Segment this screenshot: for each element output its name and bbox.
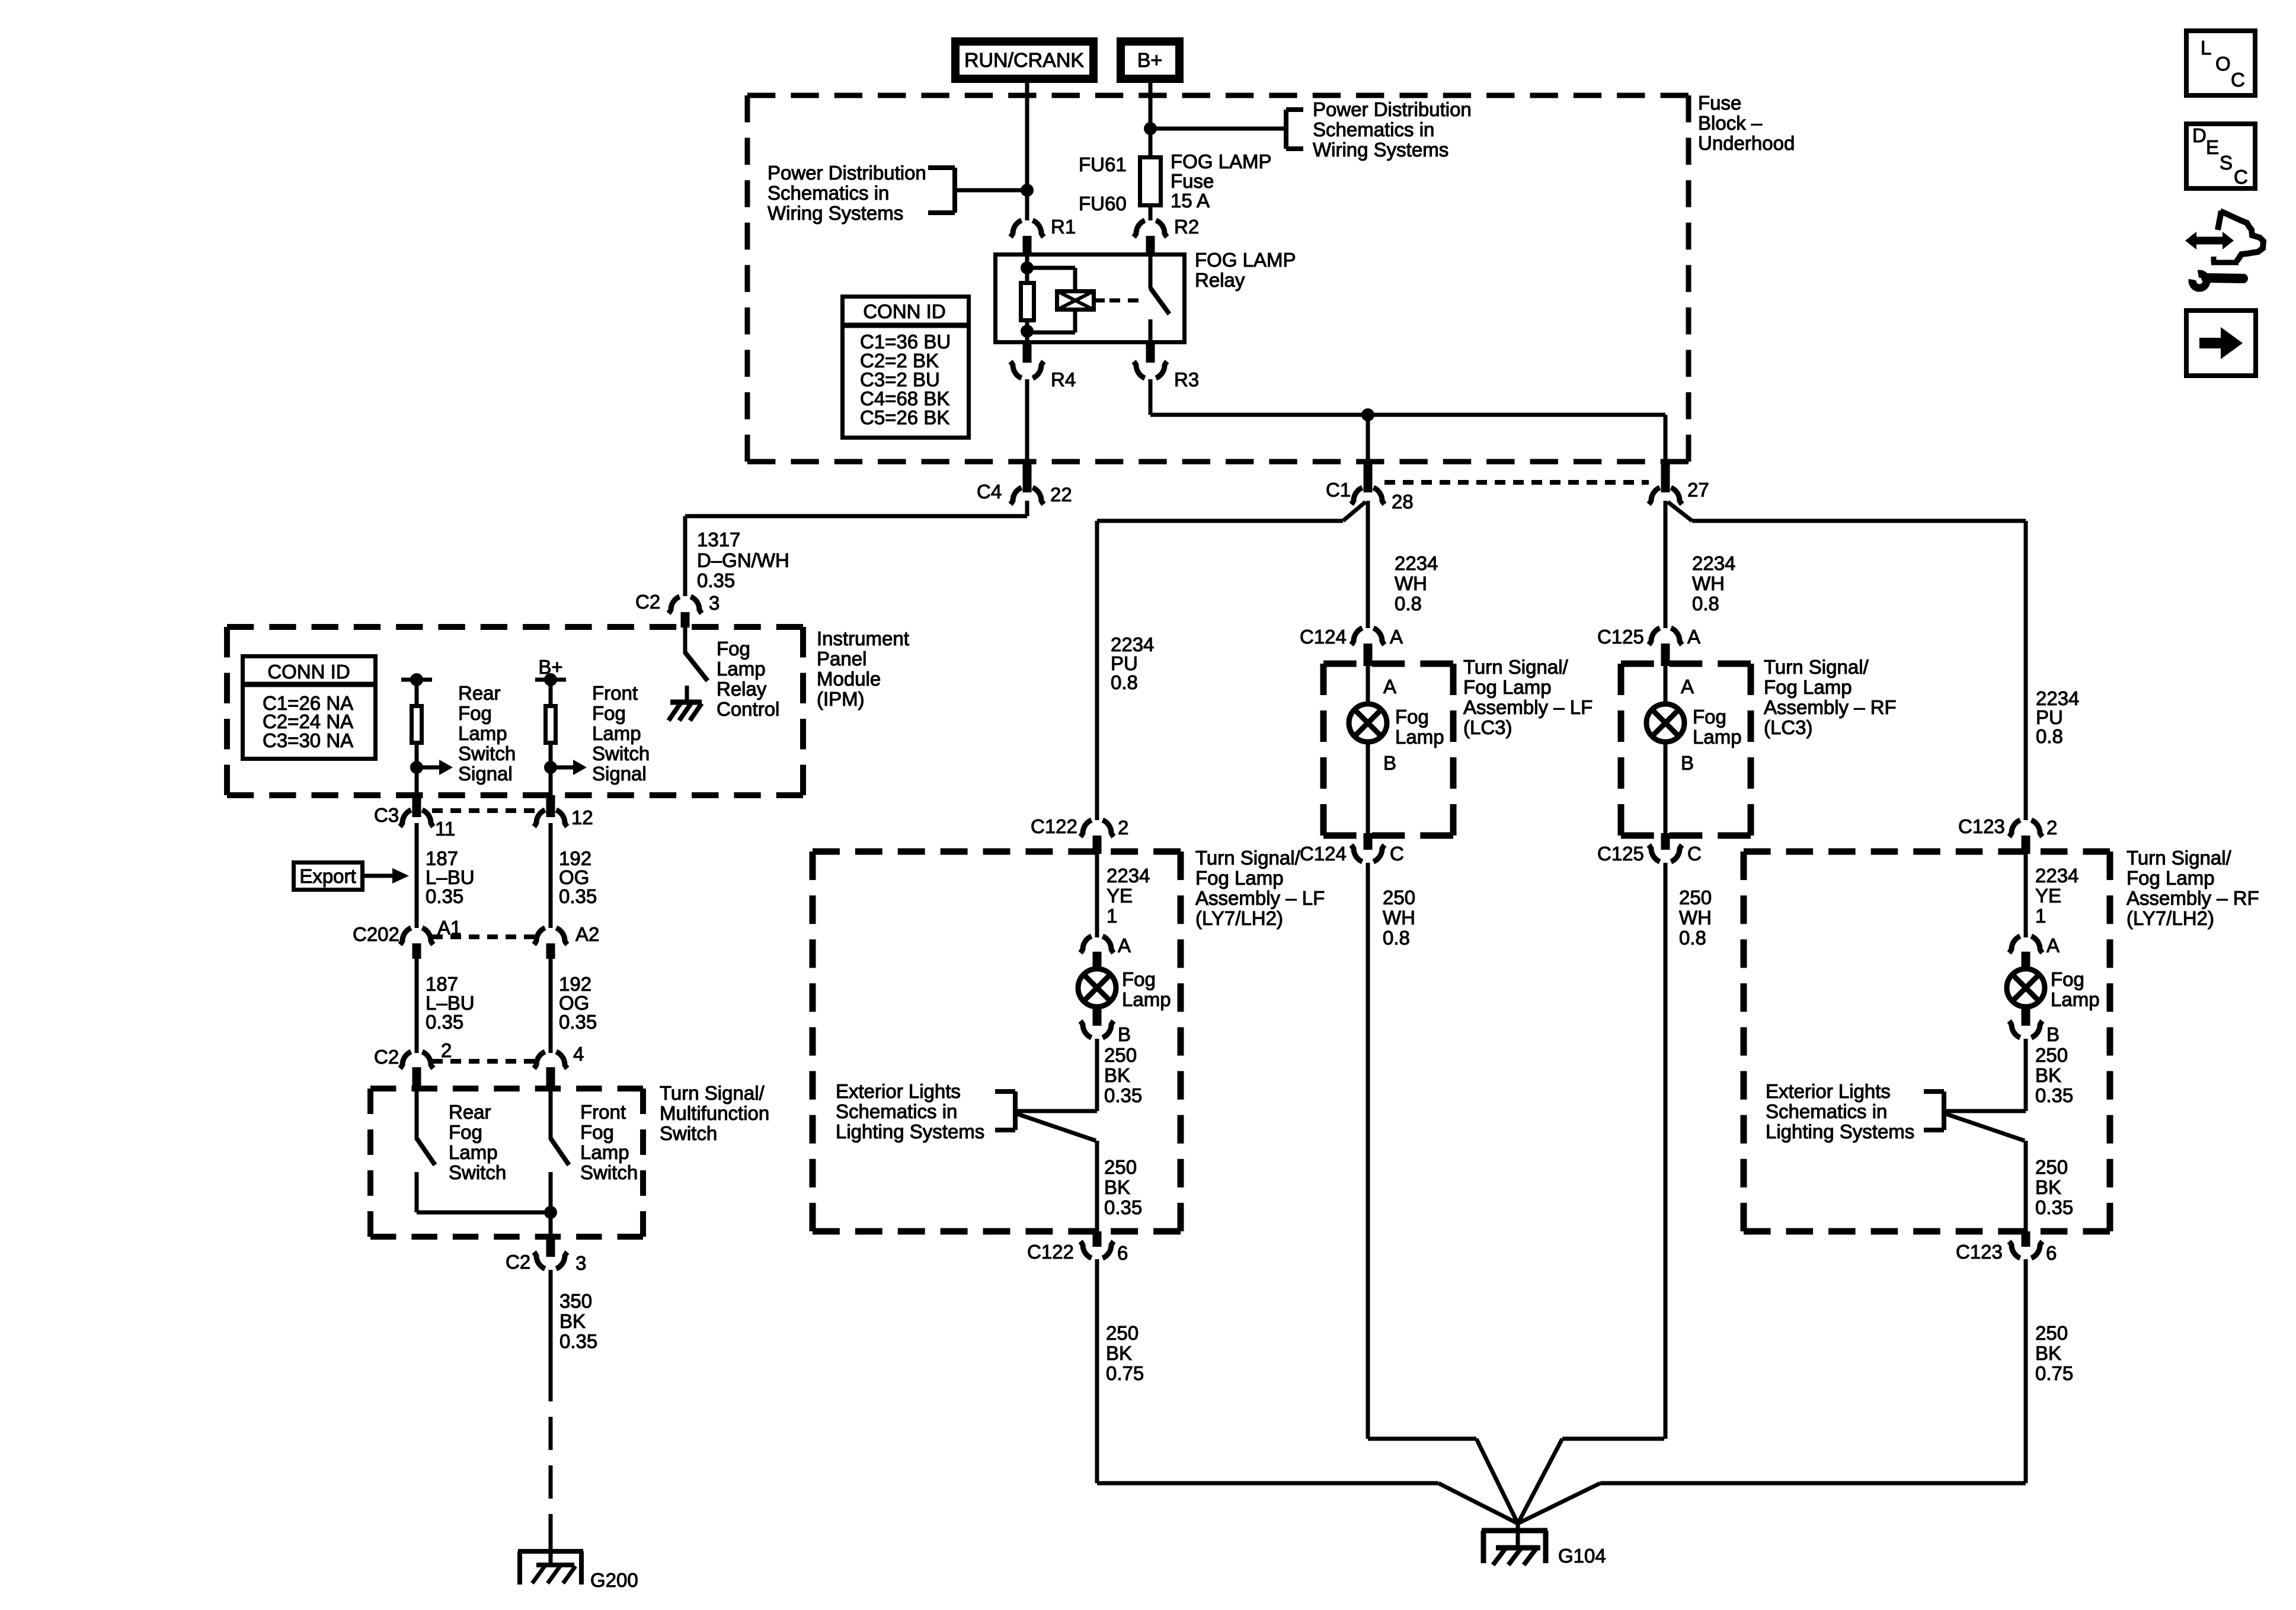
svg-text:FOG LAMP: FOG LAMP <box>1171 151 1272 172</box>
svg-text:CONN ID: CONN ID <box>267 661 350 683</box>
svg-text:C122: C122 <box>1027 1241 1074 1263</box>
label Power Distribution Schematics in Wiring Systems (left) <box>768 162 926 224</box>
connector C124 pin A <box>1351 628 1384 666</box>
svg-text:2234: 2234 <box>2035 865 2078 886</box>
svg-text:Module: Module <box>817 668 881 690</box>
wire 2234 WH from 27 to C125-A <box>1664 501 1668 628</box>
label pin 28 <box>1392 491 1414 513</box>
wire fog lamp RF to C125-C <box>1664 742 1668 834</box>
svg-text:0.35: 0.35 <box>1104 1084 1142 1106</box>
label C125 (top) <box>1597 626 1644 648</box>
label wire 250 BK 0.35 lower (LF) <box>1104 1156 1142 1218</box>
wire to right power-distribution reference <box>1150 127 1286 131</box>
svg-text:Fog Lamp: Fog Lamp <box>2126 867 2215 889</box>
svg-text:Export: Export <box>299 865 356 887</box>
label C122 (top) <box>1031 815 1077 837</box>
node junction dot to C1-28 <box>1361 408 1374 421</box>
label wire 250 BK 0.35 upper (LF) <box>1104 1044 1142 1106</box>
svg-text:Control: Control <box>717 698 779 720</box>
node rear signal junction <box>410 761 423 774</box>
label wire 2234 YE 1 (LF) <box>1107 865 1150 927</box>
svg-text:Signal: Signal <box>592 763 647 785</box>
svg-text:22: 22 <box>1050 484 1072 505</box>
svg-text:Lamp: Lamp <box>592 722 641 744</box>
label pin 2 (switch) <box>441 1039 452 1061</box>
rear fog lamp switch signal resistor <box>412 680 422 796</box>
svg-text:A: A <box>1118 934 1131 956</box>
label Power Distribution Schematics in Wiring Systems (right) <box>1313 98 1472 161</box>
wire diagonal from reference to lower 250 BK (LF) <box>1016 1113 1096 1141</box>
svg-text:FU60: FU60 <box>1079 193 1127 215</box>
wire 2234 PU from 27 to C123-2 <box>1668 502 2026 820</box>
svg-text:0.35: 0.35 <box>2035 1196 2073 1218</box>
svg-text:R1: R1 <box>1051 216 1076 238</box>
label pin A (LY7 LF) <box>1118 934 1131 956</box>
label C125 (bottom) <box>1597 843 1644 865</box>
connector C4 pin 22 <box>1011 462 1044 504</box>
wire junction to coil branch <box>1027 268 1075 291</box>
svg-text:D–GN/WH: D–GN/WH <box>697 549 789 571</box>
svg-text:WH: WH <box>1692 572 1725 594</box>
connector C1 pin 27 <box>1649 462 1682 504</box>
svg-text:Signal: Signal <box>458 763 513 785</box>
svg-text:2: 2 <box>1118 817 1128 838</box>
svg-text:C: C <box>2231 69 2245 91</box>
wire 192 OG upper <box>549 823 553 928</box>
wire 250 WH from C125-C to G104 <box>1664 863 1668 1439</box>
wire RUN/CRANK down to R1 <box>1025 83 1029 220</box>
svg-text:C123: C123 <box>1956 1241 2003 1263</box>
svg-text:0.8: 0.8 <box>1111 671 1138 693</box>
fog lamp bulb LF (LC3) <box>1349 704 1387 742</box>
wire 2234 YE C123-2 to lamp A (RF) <box>2024 854 2028 937</box>
svg-text:Switch: Switch <box>449 1161 506 1183</box>
svg-text:2234: 2234 <box>1395 552 1438 574</box>
svg-text:YE: YE <box>2035 885 2061 907</box>
svg-text:BK: BK <box>1104 1176 1130 1198</box>
svg-text:2: 2 <box>441 1039 452 1061</box>
connector C2 pin 3 (switch bottom) <box>534 1237 567 1269</box>
label C2 (switch bottom) <box>506 1251 530 1273</box>
label wire 250 BK 0.35 lower (RF) <box>2035 1156 2073 1218</box>
label wire 2234 PU 0.8 (left) <box>1111 633 1154 693</box>
svg-text:C124: C124 <box>1300 626 1347 648</box>
svg-text:0.35: 0.35 <box>559 885 597 907</box>
svg-text:A2: A2 <box>575 923 599 945</box>
svg-text:Fog: Fog <box>2051 968 2084 990</box>
svg-text:Fog: Fog <box>458 702 492 724</box>
label wire 250 WH 0.8 (left) <box>1383 886 1415 949</box>
connector R3 <box>1134 344 1167 378</box>
svg-text:(IPM): (IPM) <box>817 688 865 710</box>
svg-text:2234: 2234 <box>1692 552 1735 574</box>
svg-text:0.8: 0.8 <box>1383 927 1410 949</box>
svg-text:Assembly – RF: Assembly – RF <box>2126 887 2259 909</box>
svg-text:Exterior Lights: Exterior Lights <box>836 1080 961 1102</box>
front fog lamp switch contact <box>549 1172 553 1212</box>
wire to left power-distribution reference <box>955 188 1027 193</box>
connector tie line C202 row <box>432 934 535 939</box>
svg-text:C124: C124 <box>1300 843 1347 865</box>
wire R2 into relay switch <box>1149 254 1153 289</box>
svg-text:Schematics in: Schematics in <box>1766 1100 1887 1122</box>
svg-text:250: 250 <box>1679 886 1712 908</box>
svg-text:0.8: 0.8 <box>2036 725 2063 747</box>
lamp socket connector pin A (RF) <box>2009 936 2042 968</box>
svg-text:Fog: Fog <box>580 1121 614 1143</box>
svg-text:2: 2 <box>2046 817 2057 838</box>
svg-text:0.8: 0.8 <box>1395 593 1422 614</box>
svg-text:FOG LAMP: FOG LAMP <box>1195 249 1296 271</box>
svg-text:Fog Lamp: Fog Lamp <box>1463 676 1552 698</box>
wire 250 BK 0.75 from C123-6 to G104 <box>1600 1259 2026 1483</box>
relay coil (solenoid box with X) <box>1057 291 1094 310</box>
svg-text:Relay: Relay <box>717 678 767 700</box>
wire 250 BK lower (LF) <box>1095 1141 1099 1233</box>
svg-text:Fog: Fog <box>1395 706 1429 728</box>
label G200 <box>590 1569 638 1591</box>
wire 250 BK 0.75 from C122-6 to G104 <box>1097 1259 1438 1483</box>
IPM internal ground symbol <box>669 702 702 721</box>
node front signal junction <box>544 761 557 774</box>
instrument panel module dashed box <box>227 627 803 795</box>
svg-text:WH: WH <box>1383 907 1415 929</box>
lamp socket connector pin B (RF) <box>2009 1007 2042 1038</box>
front signal arrow <box>551 760 587 775</box>
wire into rear fog lamp switch <box>415 1089 419 1140</box>
label pin A (C125) <box>1687 626 1700 648</box>
svg-text:1: 1 <box>2035 905 2046 927</box>
svg-text:0.35: 0.35 <box>426 885 463 907</box>
label R3 <box>1174 369 1199 391</box>
rear fog lamp switch signal rail <box>401 673 432 686</box>
relay switch blade <box>1150 288 1169 314</box>
svg-text:350: 350 <box>559 1290 592 1312</box>
svg-text:Exterior Lights: Exterior Lights <box>1766 1080 1891 1102</box>
connector C125 pin A <box>1649 628 1682 666</box>
label C1 <box>1326 479 1351 501</box>
wire 250 WH from C124-C to G104 <box>1366 863 1370 1439</box>
wire junction down to C1 stub <box>1366 415 1370 462</box>
svg-text:0.75: 0.75 <box>1106 1362 1144 1384</box>
svg-text:0.35: 0.35 <box>1104 1196 1142 1218</box>
svg-text:A: A <box>1681 676 1694 697</box>
svg-text:Schematics in: Schematics in <box>1313 119 1434 140</box>
label pin B (LY7 LF) <box>1118 1023 1131 1045</box>
svg-text:6: 6 <box>1117 1242 1128 1264</box>
svg-text:3: 3 <box>709 592 720 614</box>
label Turn Signal/Fog Lamp Assembly - RF (LC3) <box>1764 656 1897 738</box>
connector C2 pin 2 <box>400 1052 433 1086</box>
svg-text:C125: C125 <box>1597 843 1644 865</box>
svg-text:0.8: 0.8 <box>1692 593 1719 614</box>
label C124 (top) <box>1300 626 1347 648</box>
connector C1 pin 28 <box>1351 462 1384 504</box>
rear fog lamp switch blade <box>417 1138 435 1165</box>
svg-text:Fuse: Fuse <box>1698 92 1741 114</box>
label Fog Lamp (LC3 LF) <box>1395 706 1444 748</box>
label wire 250 BK 0.75 (left) <box>1106 1322 1144 1384</box>
svg-text:0.35: 0.35 <box>559 1011 597 1033</box>
svg-text:Rear: Rear <box>449 1101 491 1123</box>
svg-text:Turn Signal/: Turn Signal/ <box>660 1082 765 1104</box>
svg-text:BK: BK <box>1106 1342 1132 1364</box>
label Instrument Panel Module (IPM) <box>817 628 909 710</box>
label pin A (LY7 RF) <box>2046 934 2060 956</box>
svg-text:(LY7/LH2): (LY7/LH2) <box>1195 907 1283 929</box>
label Turn Signal/Fog Lamp Assembly - RF (LY7/LH2) <box>2126 847 2259 929</box>
svg-text:2234: 2234 <box>1107 865 1150 886</box>
svg-text:BK: BK <box>2035 1064 2061 1086</box>
label pin 2 (C122) <box>1118 817 1128 838</box>
label wire 187 L-BU 0.35 lower <box>426 973 475 1033</box>
wire 2234 PU from C1-28 to C122-2 <box>1097 502 1366 820</box>
svg-text:Fog: Fog <box>717 638 750 660</box>
svg-text:Schematics in: Schematics in <box>768 182 889 204</box>
svg-text:1317: 1317 <box>697 529 740 550</box>
ground G200 <box>518 1551 583 1585</box>
svg-text:12: 12 <box>571 806 593 828</box>
svg-text:G104: G104 <box>1558 1545 1606 1567</box>
label wire 250 BK 0.35 upper (RF) <box>2035 1044 2073 1106</box>
connector C122 pin 6 <box>1080 1231 1114 1258</box>
right power distribution reference bracket <box>1286 110 1303 149</box>
wire 2234 WH from C1-28 to C124-A <box>1366 501 1370 628</box>
svg-text:B: B <box>1383 752 1396 774</box>
label pin 22 <box>1050 484 1072 505</box>
label wire 250 BK 0.75 (right) <box>2035 1322 2073 1384</box>
relay switch fixed contact <box>1149 319 1153 343</box>
wire 192 OG lower <box>549 959 553 1053</box>
wire 250 BK LF diagonal to G104 <box>1438 1483 1518 1523</box>
svg-text:C123: C123 <box>1958 815 2005 837</box>
label wire 2234 WH 0.8 (right) <box>1692 552 1735 614</box>
connector C202 pin A2 <box>534 928 567 959</box>
svg-text:C125: C125 <box>1597 626 1644 648</box>
svg-text:Lamp: Lamp <box>717 658 766 680</box>
label pin 27 <box>1687 479 1709 501</box>
label C2 (IPM top) <box>635 591 660 613</box>
label G104 <box>1558 1545 1606 1567</box>
svg-text:Front: Front <box>580 1101 626 1123</box>
svg-text:B: B <box>2046 1023 2060 1045</box>
wire 350 BK <box>549 1270 553 1368</box>
label C122 (bottom) <box>1027 1241 1074 1263</box>
label wire 192 OG 0.35 lower <box>559 973 597 1033</box>
svg-text:Relay: Relay <box>1195 269 1245 291</box>
label pin 11 <box>435 818 455 840</box>
svg-text:6: 6 <box>2046 1242 2057 1264</box>
label wire 192 OG 0.35 upper <box>559 847 597 907</box>
svg-text:250: 250 <box>1383 886 1415 908</box>
svg-text:C122: C122 <box>1031 815 1077 837</box>
svg-text:Instrument: Instrument <box>817 628 909 649</box>
label FOG LAMP Relay <box>1195 249 1296 291</box>
icon next-page arrow box <box>2186 311 2256 376</box>
svg-text:R2: R2 <box>1174 216 1199 238</box>
label Front Fog Lamp Switch <box>580 1101 638 1183</box>
label C2 (switch) <box>374 1046 399 1068</box>
label pin B (LY7 RF) <box>2046 1023 2060 1045</box>
svg-text:0.35: 0.35 <box>426 1011 463 1033</box>
label pin A inside LC3 LF <box>1383 676 1396 697</box>
svg-text:0.35: 0.35 <box>697 569 735 591</box>
svg-text:C202: C202 <box>353 923 399 945</box>
label Fuse Block - Underhood <box>1698 92 1795 154</box>
power feed box RUN/CRANK <box>955 41 1093 79</box>
label wire 2234 WH 0.8 (left) <box>1395 552 1438 614</box>
svg-text:(LC3): (LC3) <box>1463 716 1512 738</box>
label pin A2 <box>575 923 599 945</box>
wire to exterior lights reference (RF) <box>1944 1109 2026 1113</box>
label pin B inside LC3 RF <box>1681 752 1694 774</box>
relay resistor <box>1021 283 1034 321</box>
wire resistor to relay bottom <box>1025 320 1029 343</box>
label Fog Lamp Relay Control <box>717 638 779 720</box>
label R2 <box>1174 216 1199 238</box>
svg-text:28: 28 <box>1392 491 1414 513</box>
svg-text:Assembly – LF: Assembly – LF <box>1195 887 1325 909</box>
svg-text:1: 1 <box>1107 905 1117 927</box>
svg-text:Turn Signal/: Turn Signal/ <box>1195 847 1301 869</box>
label pin A1 <box>437 917 461 939</box>
svg-text:250: 250 <box>2035 1322 2068 1344</box>
label wire 2234 PU 0.8 (right) <box>2036 687 2079 747</box>
connector C2 pin 3 (IPM) <box>669 597 702 628</box>
fog lamp bulb LF (LY7) <box>1078 969 1116 1007</box>
svg-text:CONN ID: CONN ID <box>863 300 945 322</box>
svg-text:Wiring Systems: Wiring Systems <box>1313 139 1448 161</box>
svg-text:Fog: Fog <box>1122 968 1156 990</box>
label wire 187 L-BU 0.35 upper <box>426 847 475 907</box>
connector C123 pin 2 <box>2009 820 2042 854</box>
exterior lights reference bracket (LF) <box>995 1092 1015 1130</box>
label wire 350 BK 0.35 <box>559 1290 597 1352</box>
svg-text:B: B <box>1118 1023 1131 1045</box>
svg-text:Front: Front <box>592 682 638 704</box>
svg-text:Fog Lamp: Fog Lamp <box>1195 867 1284 889</box>
svg-text:FU61: FU61 <box>1079 153 1127 175</box>
svg-text:C2: C2 <box>635 591 660 613</box>
svg-text:Power Distribution: Power Distribution <box>1313 98 1472 120</box>
connector R1 <box>1011 220 1044 254</box>
wire switch common <box>417 1211 551 1215</box>
svg-text:(LY7/LH2): (LY7/LH2) <box>2126 907 2214 929</box>
svg-text:G200: G200 <box>590 1569 638 1591</box>
connector R4 <box>1011 344 1044 378</box>
wire 250 WH RF to G104 corner <box>1518 1439 1664 1523</box>
fuse FU61 FOG LAMP 15A <box>1140 158 1161 206</box>
svg-text:S: S <box>2220 152 2233 174</box>
svg-text:Multifunction: Multifunction <box>660 1102 769 1124</box>
label Fog Lamp (LY7 LF) <box>1122 968 1171 1010</box>
label wire 2234 YE 1 (RF) <box>2035 865 2078 927</box>
label Front Fog Lamp Switch Signal <box>592 682 650 785</box>
LC3 RF assembly dashed box <box>1621 664 1751 836</box>
wire 187 L-BU lower <box>415 959 419 1053</box>
label Rear Fog Lamp Switch Signal <box>458 682 516 785</box>
relay actuator dashed link <box>1094 299 1144 303</box>
node switch common junction <box>544 1206 557 1219</box>
connector C125 pin C <box>1649 833 1682 862</box>
connector tie line C2 row <box>432 1059 535 1064</box>
svg-text:3: 3 <box>575 1252 586 1274</box>
LY7 LF assembly dashed box <box>813 852 1181 1231</box>
wire common down <box>549 1212 553 1238</box>
svg-text:C5=26 BK: C5=26 BK <box>860 406 949 428</box>
svg-text:Fog: Fog <box>592 702 626 724</box>
svg-text:BK: BK <box>559 1310 586 1332</box>
label Rear Fog Lamp Switch <box>449 1101 506 1183</box>
svg-text:Power Distribution: Power Distribution <box>768 162 926 184</box>
label pin 3 (IPM top) <box>709 592 720 614</box>
svg-text:Lamp: Lamp <box>1122 988 1171 1010</box>
label pin B inside LC3 LF <box>1383 752 1396 774</box>
wire 187 L-BU upper <box>415 823 419 928</box>
svg-text:B+: B+ <box>1137 49 1163 72</box>
rear signal arrow <box>417 760 453 775</box>
svg-text:Block –: Block – <box>1698 112 1763 134</box>
label wire 1317 D-GN/WH 0.35 <box>697 529 789 591</box>
connector C202 pin A1 <box>400 928 433 959</box>
relay CONN ID table <box>840 297 969 438</box>
turn signal multifunction switch dashed box <box>370 1089 643 1237</box>
connector C2 pin 4 <box>534 1052 567 1086</box>
fuse block underhood dashed boundary <box>747 95 1689 462</box>
wire 250 BK RF diagonal to G104 <box>1518 1483 1600 1523</box>
svg-text:Lamp: Lamp <box>1693 726 1742 748</box>
svg-text:Lamp: Lamp <box>1395 726 1444 748</box>
label R1 <box>1051 216 1076 238</box>
wire 350 BK dashed run to G200 <box>549 1368 553 1565</box>
label pin 3 (switch bottom) <box>575 1252 586 1274</box>
wire 250 BK upper (RF) <box>2024 1039 2028 1111</box>
node relay coil bottom junction <box>1021 325 1034 338</box>
svg-text:C: C <box>1687 843 1702 865</box>
wire R3 down and right to 27 <box>1150 379 1665 462</box>
svg-text:250: 250 <box>2035 1156 2068 1178</box>
svg-text:Switch: Switch <box>660 1122 717 1144</box>
relay box FOG LAMP Relay <box>996 255 1185 343</box>
wire fuse to R2 <box>1149 206 1153 220</box>
svg-text:A: A <box>1390 626 1403 648</box>
svg-text:11: 11 <box>435 818 455 840</box>
Export arrow <box>364 868 409 884</box>
label R4 <box>1051 369 1076 391</box>
connector C123 pin 6 <box>2009 1231 2042 1258</box>
label Fog Lamp (LC3 RF) <box>1693 706 1742 748</box>
label Turn Signal/Multifunction Switch <box>660 1082 769 1144</box>
svg-text:250: 250 <box>1104 1156 1137 1178</box>
rear fog lamp switch contact <box>415 1172 419 1212</box>
label pin 6 (C122) <box>1117 1242 1128 1264</box>
front fog lamp switch signal rail <box>535 673 566 686</box>
wire R4 down to C4 <box>1025 379 1029 462</box>
fog lamp bulb RF (LC3) <box>1646 704 1684 742</box>
exterior lights reference bracket (RF) <box>1924 1092 1944 1130</box>
svg-text:Lamp: Lamp <box>458 722 507 744</box>
svg-text:O: O <box>2215 53 2231 75</box>
label pin 4 (switch) <box>573 1043 584 1065</box>
svg-text:250: 250 <box>2035 1044 2068 1066</box>
wire 250 BK lower (RF) <box>2024 1141 2028 1233</box>
label C123 (top) <box>1958 815 2005 837</box>
svg-text:L: L <box>2201 37 2211 59</box>
wire fog lamp LF to C124-C <box>1366 742 1370 834</box>
label pin 12 <box>571 806 593 828</box>
svg-text:0.35: 0.35 <box>2035 1084 2073 1106</box>
node junction dot on RUN/CRANK wire <box>1021 184 1034 197</box>
